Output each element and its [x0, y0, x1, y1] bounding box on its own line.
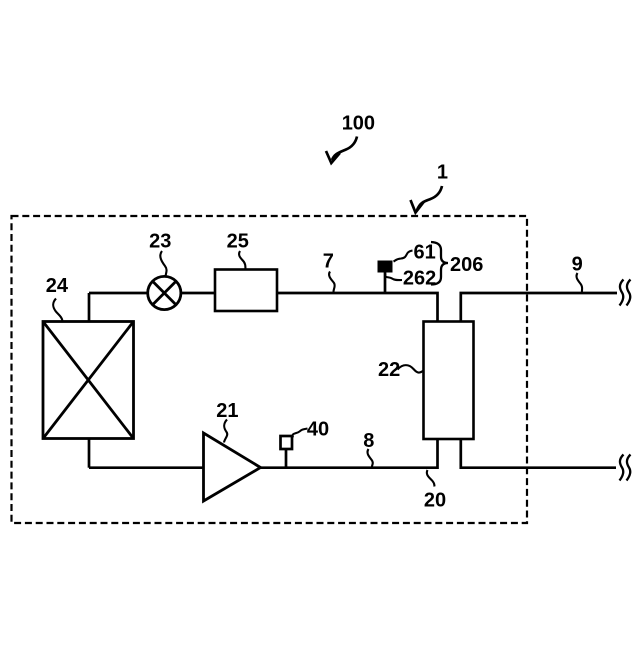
svg-text:262: 262 [403, 267, 436, 289]
leader squiggle 23 [160, 251, 166, 277]
leader squiggle 61 [394, 251, 413, 262]
leader squiggle 40 [293, 429, 308, 438]
svg-text:206: 206 [450, 254, 483, 276]
svg-text:100: 100 [342, 112, 375, 134]
svg-text:9: 9 [572, 254, 583, 276]
component 22 (vertical box) [424, 322, 474, 440]
wire 7: box 25 to component 22 left pipe [277, 293, 438, 322]
wire 20: component 22 bottom-right pipe to right edge [461, 439, 616, 468]
leader squiggle 21 [224, 420, 227, 443]
leader tilde 22 [398, 365, 424, 372]
break symbol bottom right (wire 20) [620, 455, 624, 481]
svg-text:61: 61 [414, 242, 436, 264]
leader squiggle 20 [427, 470, 435, 487]
amplifier 21 (triangle) [204, 433, 261, 501]
wire 8: amplifier 21 to component 22 bottom-left pipe [260, 439, 438, 468]
wire: left vertical from node to heat exchanger 24 top [88, 293, 91, 321]
dashed enclosure box 1 [12, 216, 528, 523]
svg-text:8: 8 [363, 430, 374, 452]
svg-text:20: 20 [424, 490, 446, 512]
valve 23 (circle with X) [148, 276, 181, 309]
sensor 61 (black square) [378, 261, 393, 273]
svg-text:1: 1 [437, 162, 448, 184]
arrow leader for 100 [332, 137, 357, 161]
svg-text:7: 7 [323, 251, 334, 273]
leader squiggle 8 [367, 449, 372, 467]
arrowhead 1 [411, 200, 425, 213]
wire: bottom rail to amplifier 21 [89, 466, 204, 469]
svg-text:40: 40 [307, 419, 329, 441]
svg-text:23: 23 [149, 231, 171, 253]
svg-text:21: 21 [216, 400, 238, 422]
heat exchanger 24 (crossed box) [43, 322, 134, 439]
box 25 [215, 270, 277, 312]
leader squiggle 25 [239, 251, 245, 270]
svg-text:22: 22 [378, 359, 400, 381]
arrow leader for 1 [417, 186, 442, 210]
stub wire for sensor 61 [384, 271, 387, 293]
wire: heat exchanger 24 bottom to bottom rail [88, 439, 91, 468]
break symbol top right (wire 9) [620, 280, 624, 306]
svg-text:24: 24 [46, 275, 69, 297]
curly brace 206 [431, 242, 448, 285]
leader squiggle 24 [53, 299, 62, 322]
leader squiggle 9 [576, 273, 582, 292]
svg-text:25: 25 [227, 231, 249, 253]
wire: top-left horizontal to valve 23 [89, 292, 148, 295]
wire 9: component 22 right pipe to right edge [461, 293, 617, 322]
arrowhead 100 [326, 151, 340, 163]
wire: valve 23 to box 25 [181, 292, 215, 295]
leader squiggle 262 [385, 274, 402, 281]
leader squiggle 7 [329, 272, 335, 293]
stub wire for sensor 40 [285, 449, 288, 468]
sensor 40 (small open square) [281, 436, 293, 449]
